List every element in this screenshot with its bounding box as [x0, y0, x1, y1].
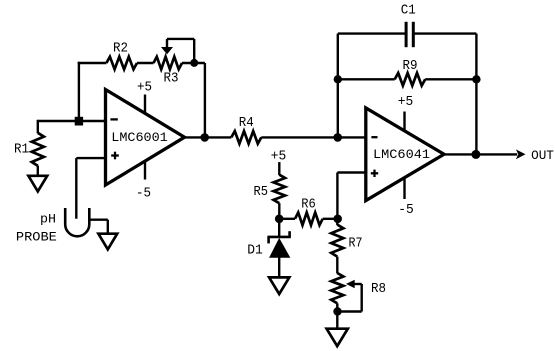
svg-text:+5: +5	[271, 148, 287, 164]
svg-text:PROBE: PROBE	[16, 230, 57, 245]
svg-text:LMC6041: LMC6041	[373, 147, 430, 162]
svg-text:R5: R5	[254, 184, 269, 200]
svg-text:R1: R1	[14, 142, 29, 158]
svg-text:R8: R8	[371, 281, 386, 297]
svg-text:R9: R9	[403, 58, 418, 74]
svg-text:-5: -5	[136, 186, 151, 202]
svg-text:+5: +5	[398, 94, 414, 110]
svg-text:D1: D1	[247, 242, 263, 258]
svg-text:R7: R7	[349, 236, 363, 252]
svg-text:pH: pH	[40, 212, 56, 227]
svg-text:R4: R4	[239, 115, 254, 131]
svg-text:R6: R6	[301, 197, 316, 213]
svg-text:+5: +5	[137, 80, 152, 96]
svg-text:R2: R2	[113, 40, 128, 56]
svg-text:C1: C1	[401, 3, 416, 19]
svg-text:R3: R3	[164, 70, 179, 86]
svg-text:OUT: OUT	[531, 148, 554, 163]
svg-text:LMC6001: LMC6001	[111, 130, 168, 145]
svg-text:-5: -5	[398, 202, 414, 218]
